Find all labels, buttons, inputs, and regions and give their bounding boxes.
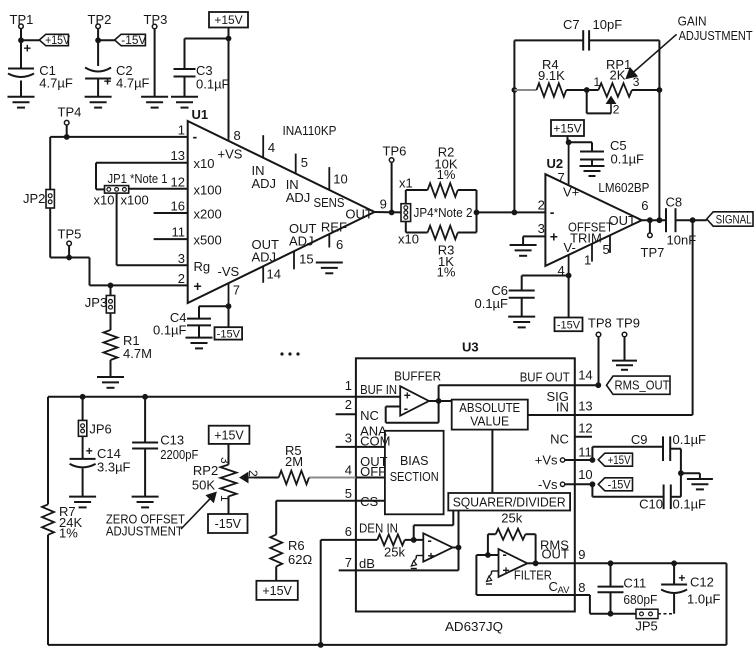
svg-text:NC: NC — [550, 431, 569, 446]
svg-text:SENS: SENS — [314, 195, 345, 210]
svg-text:+: + — [24, 41, 32, 56]
svg-text:-VS: -VS — [218, 264, 240, 279]
svg-text:C13: C13 — [160, 433, 184, 448]
svg-text:V-: V- — [564, 240, 576, 255]
svg-text:7: 7 — [558, 170, 565, 185]
svg-text:ADJUSTMENT: ADJUSTMENT — [679, 28, 753, 43]
svg-text:1%: 1% — [437, 167, 456, 182]
svg-text:SIGNAL: SIGNAL — [716, 212, 752, 226]
svg-text:ADJ: ADJ — [252, 250, 277, 265]
svg-text:x10: x10 — [94, 193, 115, 208]
svg-text:62Ω: 62Ω — [288, 552, 312, 567]
svg-text:2: 2 — [538, 198, 545, 213]
svg-text:-: - — [550, 204, 555, 220]
svg-text:0.1µF: 0.1µF — [673, 432, 707, 447]
svg-text:x200: x200 — [194, 207, 222, 222]
svg-text:2: 2 — [345, 397, 352, 412]
svg-text:+15V: +15V — [214, 428, 244, 442]
svg-text:JP3: JP3 — [85, 295, 107, 310]
svg-text:RMS_OUT: RMS_OUT — [615, 379, 670, 393]
svg-text:1.0µF: 1.0µF — [687, 592, 721, 607]
svg-text:ADJ: ADJ — [252, 176, 277, 191]
svg-text:3.3µF: 3.3µF — [97, 460, 131, 475]
svg-text:TP7: TP7 — [641, 245, 665, 260]
svg-text:SECTION: SECTION — [390, 470, 439, 484]
svg-text:11: 11 — [578, 445, 592, 460]
svg-text:15: 15 — [299, 251, 313, 266]
svg-text:AD637JQ: AD637JQ — [445, 619, 503, 634]
svg-text:C11: C11 — [623, 576, 646, 591]
svg-text:TP6: TP6 — [383, 144, 407, 159]
svg-text:JP2: JP2 — [23, 191, 45, 206]
svg-text:2K: 2K — [610, 68, 626, 83]
svg-text:-: - — [428, 533, 432, 548]
svg-text:3: 3 — [178, 251, 185, 266]
svg-text:TP9: TP9 — [616, 316, 640, 331]
svg-text:C9: C9 — [631, 432, 648, 447]
svg-text:+: + — [678, 571, 685, 585]
svg-text:10: 10 — [578, 467, 592, 482]
svg-text:U3: U3 — [462, 340, 479, 355]
svg-text:4: 4 — [345, 463, 352, 478]
svg-text:ABSOLUTE: ABSOLUTE — [459, 401, 520, 415]
svg-text:3: 3 — [345, 431, 352, 446]
svg-text:6: 6 — [336, 237, 343, 252]
svg-text:ADJUSTMENT: ADJUSTMENT — [106, 524, 183, 539]
svg-text:OUT: OUT — [609, 213, 637, 228]
svg-text:x1: x1 — [399, 176, 413, 191]
svg-text:1: 1 — [218, 495, 232, 502]
svg-text:-: - — [503, 547, 507, 562]
svg-text:2: 2 — [246, 470, 260, 477]
svg-text:4.7µF: 4.7µF — [116, 76, 150, 91]
svg-text:C10: C10 — [639, 497, 663, 512]
svg-text:DEN IN: DEN IN — [359, 521, 398, 536]
svg-text:SQUARER/DIVIDER: SQUARER/DIVIDER — [453, 496, 566, 510]
svg-text:5: 5 — [603, 242, 610, 257]
svg-text:R6: R6 — [288, 538, 305, 553]
svg-text:+: + — [86, 444, 93, 458]
svg-text:+: + — [104, 74, 112, 89]
svg-text:-Vs: -Vs — [538, 477, 558, 492]
svg-text:COM: COM — [360, 434, 390, 449]
svg-text:0.1µF: 0.1µF — [673, 497, 707, 512]
svg-text:IN: IN — [556, 400, 569, 415]
svg-text:6: 6 — [345, 524, 352, 539]
svg-text:x100: x100 — [194, 182, 222, 197]
svg-text:12: 12 — [171, 174, 185, 189]
svg-text:C7: C7 — [563, 17, 580, 32]
svg-text:TP5: TP5 — [58, 227, 82, 242]
svg-text:5: 5 — [345, 486, 352, 501]
svg-text:+15V: +15V — [262, 584, 292, 598]
svg-text:dB: dB — [359, 556, 375, 571]
svg-text:GAIN: GAIN — [678, 13, 707, 28]
svg-text:+: + — [503, 564, 510, 578]
svg-text:0.1µF: 0.1µF — [153, 323, 187, 338]
svg-text:C: C — [549, 579, 558, 594]
svg-text:-15V: -15V — [217, 328, 241, 340]
svg-text:25k: 25k — [384, 545, 405, 560]
svg-text:13: 13 — [171, 148, 185, 163]
svg-text:11: 11 — [172, 225, 186, 240]
svg-text:JP4*Note 2: JP4*Note 2 — [414, 205, 473, 220]
svg-text:+15V: +15V — [608, 455, 631, 467]
svg-text:16: 16 — [171, 199, 185, 214]
svg-text:BUF OUT: BUF OUT — [520, 370, 570, 385]
svg-text:+: + — [194, 278, 202, 294]
svg-text:10pF: 10pF — [593, 17, 623, 32]
svg-text:VALUE: VALUE — [470, 415, 509, 429]
svg-text:LM602BP: LM602BP — [598, 180, 649, 195]
svg-text:1: 1 — [345, 378, 352, 393]
svg-text:C8: C8 — [666, 195, 683, 210]
svg-text:1: 1 — [594, 75, 601, 89]
svg-text:-15V: -15V — [557, 319, 581, 331]
svg-text:+15V: +15V — [553, 121, 581, 135]
svg-text:BUF IN: BUF IN — [360, 382, 397, 397]
svg-text:x100: x100 — [121, 193, 149, 208]
svg-text:14: 14 — [267, 267, 281, 282]
svg-text:+15V: +15V — [45, 35, 70, 47]
svg-text:14: 14 — [578, 368, 592, 383]
svg-text:x10: x10 — [398, 232, 419, 247]
svg-text:-15V: -15V — [215, 517, 242, 531]
svg-text:OFF: OFF — [360, 464, 386, 479]
svg-text:U1: U1 — [192, 107, 209, 122]
svg-text:7: 7 — [345, 555, 352, 570]
svg-text:TP8: TP8 — [588, 316, 612, 331]
svg-text:C12: C12 — [690, 575, 714, 590]
svg-text:1: 1 — [178, 122, 185, 137]
svg-text:3: 3 — [538, 221, 545, 236]
svg-text:ADJ: ADJ — [289, 234, 314, 249]
svg-text:+15V: +15V — [214, 13, 242, 27]
svg-text:2: 2 — [178, 271, 185, 286]
svg-text:2200pF: 2200pF — [160, 447, 198, 462]
svg-text:4.7µF: 4.7µF — [39, 76, 73, 91]
svg-text:8: 8 — [234, 128, 241, 143]
svg-text:8: 8 — [578, 580, 585, 595]
svg-text:10: 10 — [333, 172, 347, 187]
svg-text:-15V: -15V — [608, 479, 631, 491]
svg-text:x500: x500 — [194, 233, 222, 248]
svg-text:FILTER: FILTER — [514, 568, 552, 583]
svg-text:9: 9 — [578, 547, 585, 562]
svg-text:-: - — [404, 401, 408, 416]
svg-text:0.1µF: 0.1µF — [474, 296, 508, 311]
svg-text:680pF: 680pF — [623, 592, 657, 607]
svg-text:25k: 25k — [501, 511, 522, 526]
svg-text:OUT: OUT — [345, 207, 373, 222]
svg-text:1%: 1% — [59, 526, 78, 541]
svg-text:BIAS: BIAS — [400, 454, 429, 468]
svg-text:+VS: +VS — [218, 147, 243, 162]
svg-text:2: 2 — [613, 103, 620, 117]
svg-text:4: 4 — [268, 140, 275, 155]
svg-text:7: 7 — [233, 283, 240, 298]
svg-text:OUT: OUT — [541, 547, 569, 562]
svg-text:x10: x10 — [194, 156, 215, 171]
svg-text:JP5: JP5 — [635, 619, 657, 634]
svg-text:3: 3 — [218, 457, 232, 464]
svg-text:V+: V+ — [563, 185, 579, 200]
svg-text:50K: 50K — [192, 478, 215, 493]
svg-text:-: - — [193, 129, 198, 145]
svg-text:1%: 1% — [437, 265, 456, 280]
svg-text:+: + — [428, 549, 435, 563]
svg-text:CS: CS — [360, 494, 378, 509]
svg-text:13: 13 — [578, 399, 592, 414]
svg-text:REF: REF — [321, 220, 347, 235]
svg-text:U2: U2 — [547, 156, 564, 171]
svg-text:0.1µF: 0.1µF — [196, 77, 230, 92]
svg-text:NC: NC — [360, 408, 379, 423]
svg-text:9: 9 — [380, 197, 387, 212]
svg-text:6: 6 — [641, 198, 648, 213]
svg-text:5: 5 — [301, 155, 308, 170]
svg-text:Rg: Rg — [194, 259, 211, 274]
svg-text:0.1µF: 0.1µF — [611, 152, 645, 167]
svg-text:JP6: JP6 — [89, 422, 111, 437]
svg-text:AV: AV — [558, 585, 571, 596]
svg-text:INA110KP: INA110KP — [283, 123, 337, 138]
svg-text:BUFFER: BUFFER — [394, 369, 441, 384]
svg-text:-15V: -15V — [121, 35, 146, 47]
svg-text:JP1 *Note 1: JP1 *Note 1 — [108, 171, 168, 186]
svg-text:2M: 2M — [285, 454, 303, 469]
svg-text:+: + — [550, 229, 558, 245]
svg-text:+Vs: +Vs — [535, 453, 558, 468]
svg-text:ADJ: ADJ — [286, 190, 311, 205]
svg-text:RP2: RP2 — [193, 463, 218, 478]
svg-text:9.1K: 9.1K — [538, 68, 565, 83]
svg-text:1: 1 — [584, 253, 591, 268]
svg-text:4.7M: 4.7M — [123, 346, 152, 361]
svg-text:12: 12 — [578, 421, 592, 436]
svg-text:TP4: TP4 — [58, 105, 82, 120]
